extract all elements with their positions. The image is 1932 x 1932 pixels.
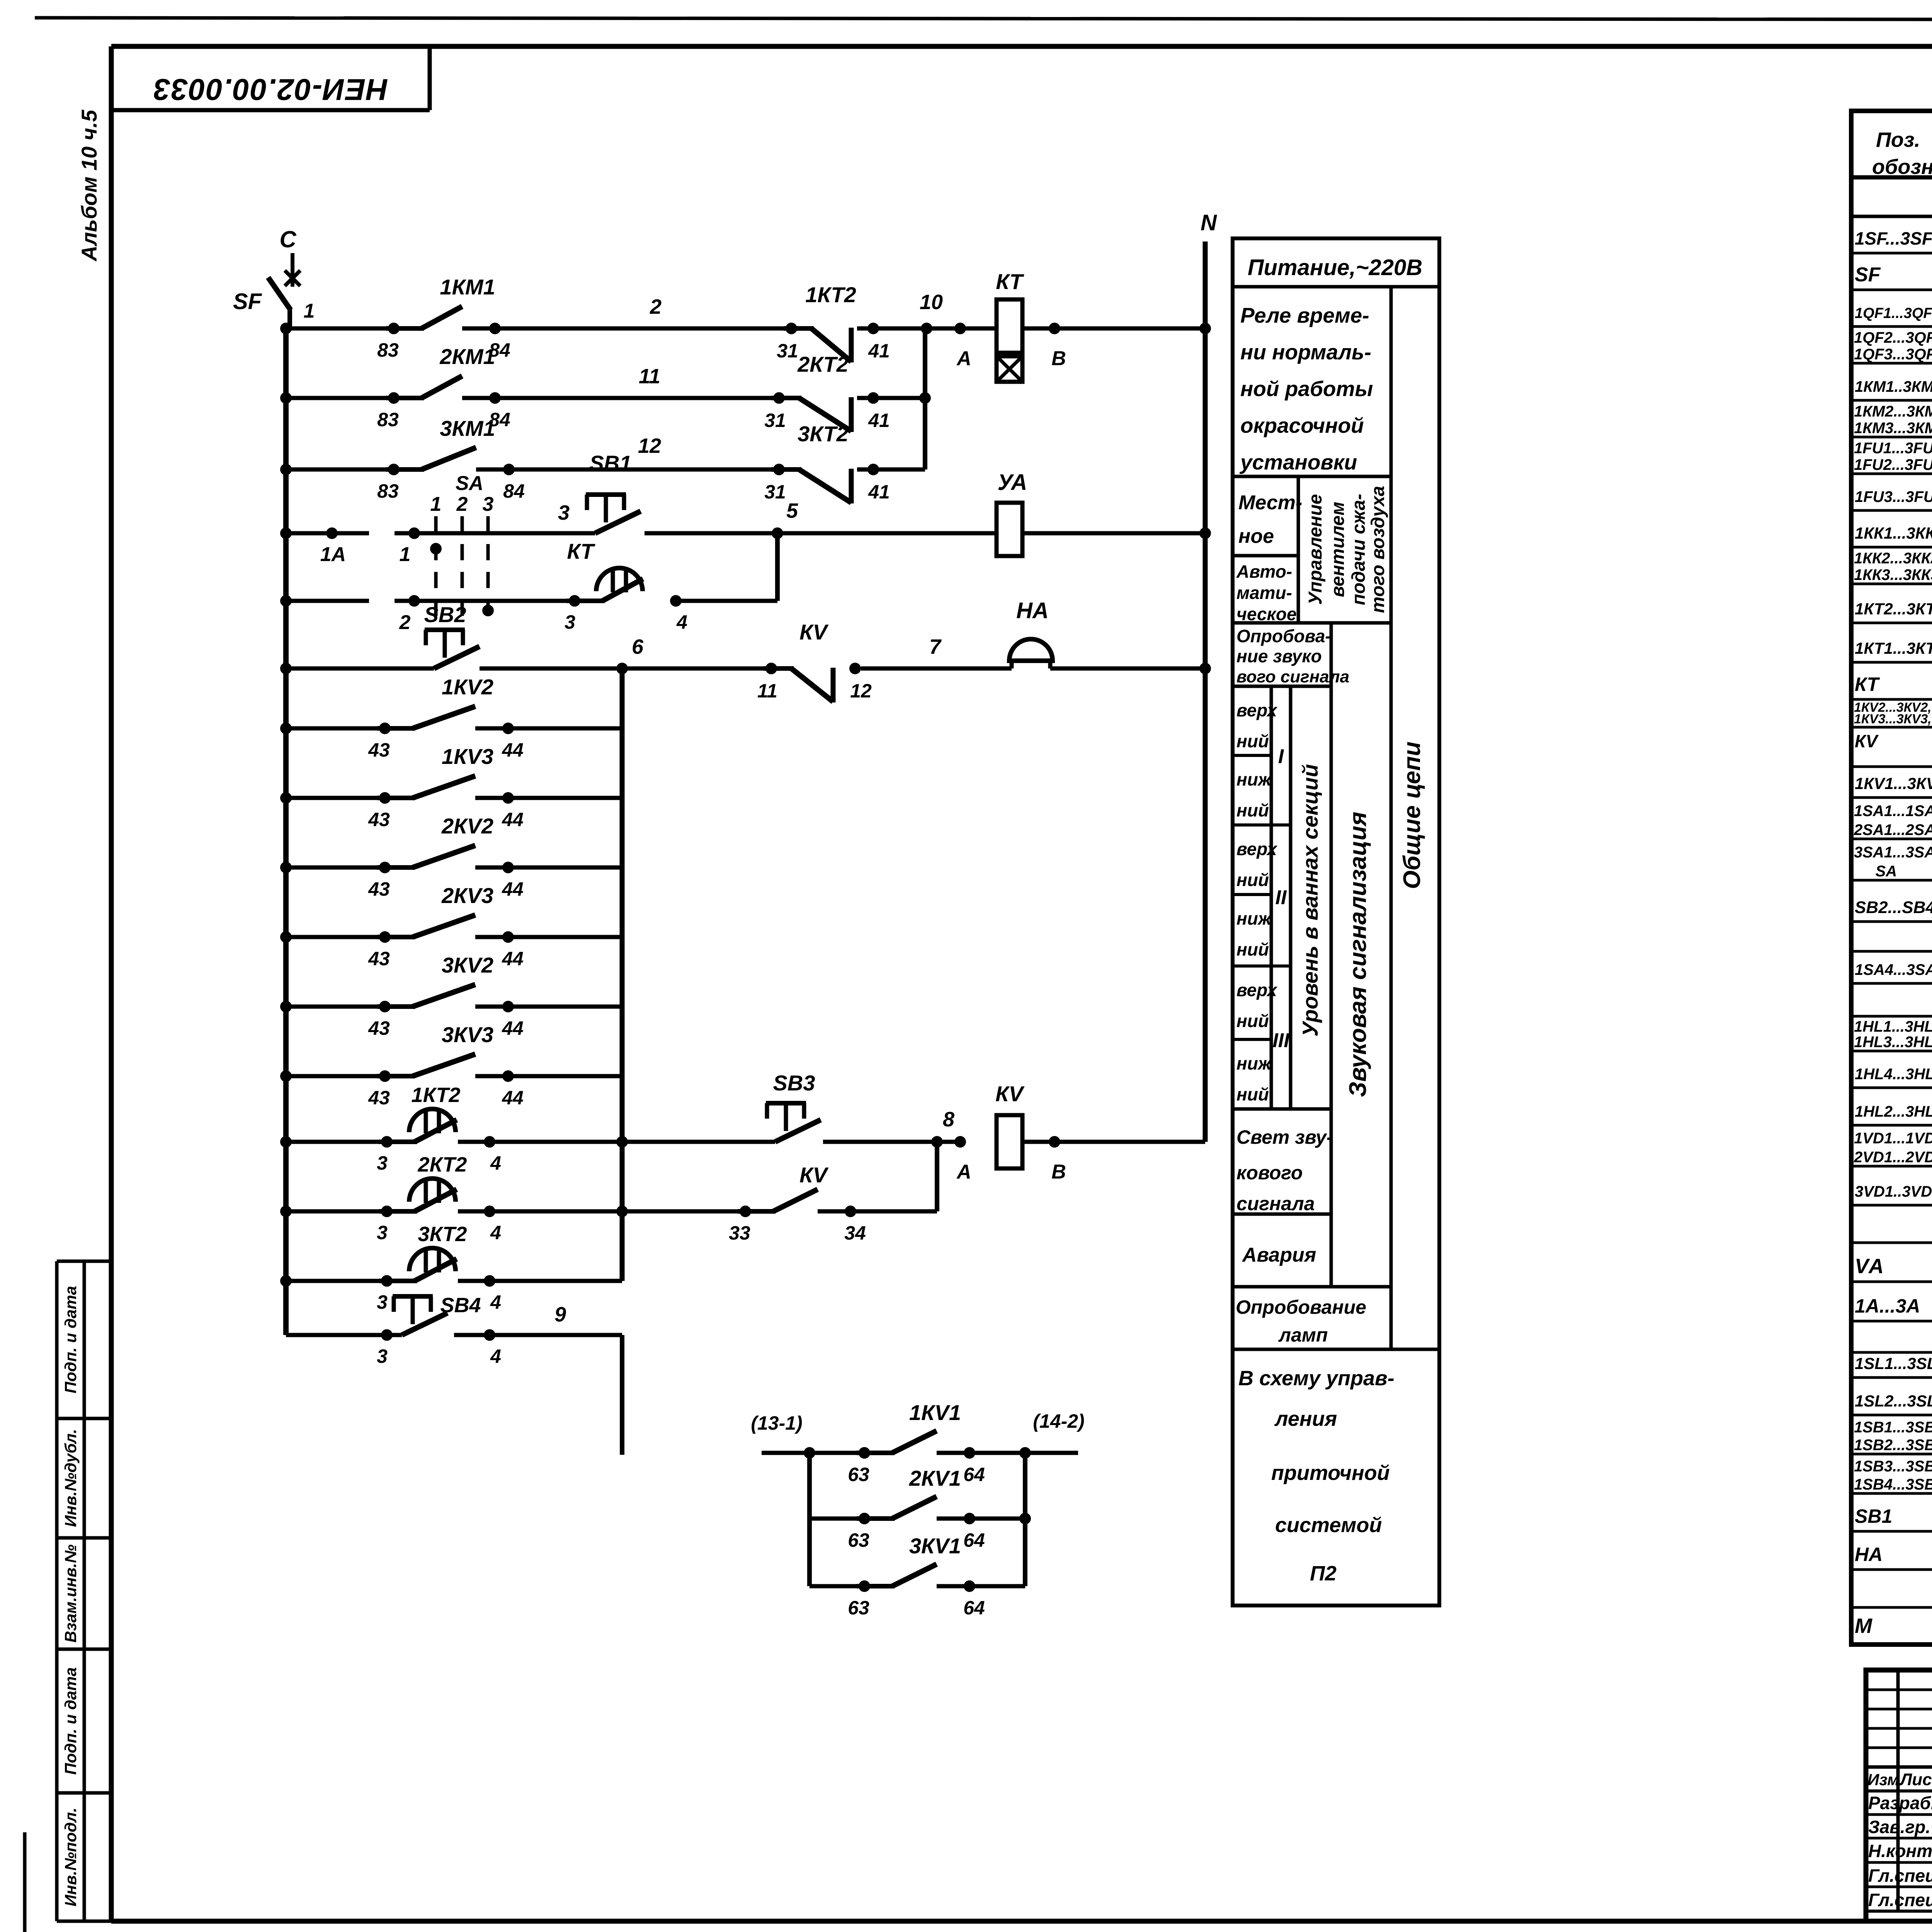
svg-text:Альбом 10 ч.5: Альбом 10 ч.5 [77,109,101,262]
svg-text:Звуковая сигнализация: Звуковая сигнализация [1345,812,1371,1097]
row 1SB3 [1854,1458,1932,1493]
svg-text:2КV1: 2КV1 [909,1466,961,1490]
svg-text:вентилем: вентилем [1328,502,1348,597]
contact 2КV2 (43-44) [280,814,622,900]
svg-text:Опробова-: Опробова- [1236,626,1331,646]
wire rungC to mid bus [458,1279,622,1283]
svg-text:А: А [956,347,971,370]
svg-text:ниж: ниж [1236,1053,1272,1073]
wire rung2 [280,392,394,404]
svg-text:Н.контр.: Н.контр. [1868,1841,1932,1861]
svg-text:ламп: ламп [1278,1324,1328,1346]
svg-text:64: 64 [963,1597,985,1619]
svg-text:3: 3 [377,1345,388,1367]
row 1SA1 [1854,803,1932,838]
svg-text:2VD1...2VD4,: 2VD1...2VD4, [1854,1149,1932,1166]
svg-text:кового: кового [1236,1162,1303,1184]
svg-text:64: 64 [963,1529,985,1551]
svg-text:Гл.спец.: Гл.спец. [1868,1890,1932,1910]
bell HA [1009,598,1053,668]
svg-text:44: 44 [502,948,524,969]
label: Автоматическое [1236,561,1297,624]
time contact 1KT2 (3-4) [280,1083,501,1174]
svg-text:А: А [956,1161,971,1183]
svg-text:2КТ2: 2КТ2 [797,352,849,376]
svg-text:1VD1...1VD4,: 1VD1...1VD4, [1854,1130,1932,1147]
contact KV (11-12) NC [757,620,872,702]
svg-text:8: 8 [943,1108,954,1131]
doc number box (rotated 180) [111,48,430,110]
svg-text:1НL2...3НL2: 1НL2...3НL2 [1855,1103,1932,1120]
svg-text:43: 43 [368,878,390,900]
svg-text:2: 2 [399,611,411,634]
contact KV (33-34) [729,1163,866,1244]
svg-text:3: 3 [377,1152,388,1174]
row 1HL1 [1854,1018,1932,1051]
row diod [1854,1130,1932,1166]
svg-text:Разраб.: Разраб. [1868,1793,1932,1813]
svg-text:41: 41 [868,481,890,503]
svg-text:1QF3...3QF3: 1QF3...3QF3 [1854,346,1932,363]
svg-text:2SА1...2SА3,: 2SА1...2SА3, [1854,821,1932,838]
svg-text:41: 41 [868,340,890,362]
row 1KM2 [1854,403,1932,437]
svg-text:2: 2 [456,493,468,515]
svg-text:4: 4 [490,1291,501,1313]
svg-text:I: I [1278,745,1284,768]
group verticals [810,1453,1025,1586]
svg-text:3: 3 [377,1222,388,1243]
circuit breaker SF [233,277,315,328]
svg-text:КТ: КТ [996,269,1024,294]
svg-text:В: В [1051,1161,1066,1183]
label: Местное [1238,492,1302,548]
svg-text:1КК2...3КК2,: 1КК2...3КК2, [1854,550,1932,567]
svg-text:ниж: ниж [1236,908,1272,929]
row 1HL2 [1855,1097,1932,1122]
svg-text:установки: установки [1239,450,1357,474]
svg-text:1SА4...3SА4: 1SА4...3SА4 [1855,961,1932,978]
contact 3КV3 (43-44) [280,1022,622,1109]
wire rung4 to N [1022,527,1211,539]
row VA [1855,1253,1932,1278]
svg-text:1КV3: 1КV3 [442,744,493,769]
svg-text:КТ: КТ [567,539,595,563]
label: Управление вентилем (vertical) [1305,486,1388,613]
svg-text:11: 11 [639,365,660,388]
contact 2KM1 (83-84) [377,344,510,430]
svg-text:верх: верх [1236,839,1278,859]
push button SB1 [586,451,641,533]
push button SB4 (3-4) [286,1294,501,1367]
svg-text:43: 43 [368,809,390,830]
label SA and 84 on rung3 [456,472,525,502]
svg-text:43: 43 [368,1017,390,1039]
label: Опробование звукового сигнала [1236,626,1349,686]
svg-text:Взам.инв.№: Взам.инв.№ [61,1544,80,1643]
svg-text:1: 1 [430,493,442,515]
svg-text:1FU3...3FU3: 1FU3...3FU3 [1855,488,1932,505]
svg-text:2КV3: 2КV3 [441,883,493,908]
svg-text:43: 43 [368,948,390,969]
solenoid valve coil YA [997,470,1027,556]
svg-text:III: III [1272,1029,1290,1052]
contact 2KT2 (31-41) NC [764,352,890,432]
node A (KT) [954,323,971,370]
component table grid [1851,111,1932,1645]
push button SB3 [766,1071,821,1142]
svg-text:УА: УА [998,470,1027,495]
svg-text:1КТ2: 1КТ2 [412,1083,461,1107]
time contact 2KT2 (3-4) [280,1153,501,1243]
svg-text:5: 5 [786,499,798,522]
svg-text:83: 83 [377,339,399,361]
node A (KV) [954,1136,971,1183]
svg-text:ний: ний [1236,939,1269,959]
svg-text:2: 2 [650,295,662,318]
svg-text:1НL4...3НL4: 1НL4...3НL4 [1855,1066,1932,1083]
svg-text:Лист: Лист [1899,1770,1932,1789]
svg-text:1SВ3...3SВ3,: 1SВ3...3SВ3, [1854,1458,1932,1475]
svg-text:1SВ2...3SВ2,: 1SВ2...3SВ2, [1854,1437,1932,1454]
wire 11 [462,365,779,398]
svg-text:SВ2: SВ2 [424,602,466,627]
svg-text:1FU2...3FU2,: 1FU2...3FU2, [1854,456,1932,473]
row SB2 [1855,893,1932,918]
row M [1855,1605,1932,1643]
svg-text:1НL1...3НL1,: 1НL1...3НL1, [1854,1018,1932,1035]
level cell labels [1236,700,1278,1104]
svg-text:НА: НА [1016,598,1049,623]
svg-text:84: 84 [503,480,525,502]
node 1 [395,527,595,566]
svg-text:Поз.: Поз. [1876,128,1920,151]
svg-text:3: 3 [558,501,570,524]
wire rungB through mid bus [458,1206,745,1217]
row HA [1855,1544,1932,1565]
wire 12 [476,434,779,469]
svg-text:ческое: ческое [1236,604,1297,624]
svg-text:12: 12 [850,680,872,702]
svg-text:63: 63 [848,1597,869,1619]
node 10 [857,291,960,334]
wire rung6 to N [1050,663,1211,674]
svg-text:Зав.гр.: Зав.гр. [1868,1817,1930,1837]
svg-text:1SL1...3SL1,: 1SL1...3SL1, [1855,1354,1932,1372]
svg-text:4: 4 [676,611,687,633]
svg-text:44: 44 [502,1017,524,1039]
svg-text:VА: VА [1855,1255,1884,1278]
svg-text:4: 4 [490,1345,501,1367]
svg-text:64: 64 [963,1464,985,1485]
contact 1KV1 (63-64) [762,1400,1078,1485]
label: Опробование ламп [1236,1296,1366,1346]
svg-text:ние звуко: ние звуко [1236,646,1322,666]
svg-text:КV: КV [1855,731,1879,751]
svg-text:Подп. и дата: Подп. и дата [61,1286,80,1393]
contact 3KM1 (83-84) [377,416,515,502]
push button SB2 [280,602,480,674]
node 6 [480,635,771,674]
svg-text:2КV2: 2КV2 [441,814,493,838]
svg-text:1А: 1А [320,543,346,566]
title block header texts [1867,1769,1932,1789]
wire rung4 (node 1A) [280,527,369,566]
svg-text:1КV1...3КV1: 1КV1...3КV1 [1855,774,1932,793]
wire rungA [458,1136,775,1148]
selector switch SA (positions 1 2 3) [430,493,494,624]
svg-text:31: 31 [764,481,786,503]
svg-text:1SВ4...3SВ4: 1SВ4...3SВ4 [1854,1476,1932,1493]
svg-text:SА: SА [1854,863,1897,880]
signature rows [1868,1792,1932,1910]
svg-text:1КМ2...3КМ2,: 1КМ2...3КМ2, [1854,403,1932,420]
svg-text:43: 43 [368,1087,390,1109]
row 1SL2 [1855,1386,1932,1412]
svg-text:КV: КV [995,1082,1025,1106]
svg-text:3КМ1: 3КМ1 [440,416,495,440]
svg-text:Свет зву-: Свет зву- [1236,1126,1333,1148]
row 1SB1 [1854,1419,1932,1454]
svg-text:верх: верх [1236,980,1278,1000]
wire 2 [462,295,791,328]
svg-text:Подп. и дата: Подп. и дата [61,1667,80,1775]
svg-text:7: 7 [929,635,942,658]
row 3SA1 [1854,844,1932,880]
svg-text:вого сигнала: вого сигнала [1236,667,1349,686]
svg-text:ний: ний [1236,1084,1269,1104]
time contact KT on rung5 [565,539,687,633]
svg-text:1QF2...3QF2: 1QF2...3QF2 [1854,329,1932,346]
svg-text:ления: ления [1274,1407,1337,1430]
wire rung1 from SF bus [280,323,394,334]
row KV [1855,731,1879,751]
svg-text:Питание,~220В: Питание,~220В [1248,255,1422,280]
svg-text:Авария: Авария [1242,1244,1316,1266]
row SF [1855,261,1932,286]
node 5 [645,499,997,539]
svg-text:П2: П2 [1310,1562,1337,1585]
svg-text:ни нормаль-: ни нормаль- [1240,340,1371,364]
svg-text:11: 11 [757,680,777,702]
svg-text:SВ3: SВ3 [773,1071,815,1095]
svg-text:43: 43 [368,739,390,761]
svg-text:SВ1: SВ1 [1855,1505,1892,1527]
svg-text:ной работы: ной работы [1240,377,1373,401]
svg-text:1КТ2: 1КТ2 [805,282,856,307]
contact 2КV3 (43-44) [280,883,622,969]
svg-text:SВ1: SВ1 [590,451,632,475]
row KT [1855,671,1932,696]
svg-text:Авто-: Авто- [1236,561,1292,582]
svg-text:83: 83 [377,409,399,430]
mid vertical bus [620,668,625,1281]
svg-text:12: 12 [638,434,661,457]
svg-text:1КМ3...3КМ3: 1КМ3...3КМ3 [1854,420,1932,437]
svg-text:3КV3: 3КV3 [442,1022,493,1047]
svg-text:3КТ2: 3КТ2 [798,422,849,446]
function column frame [1233,238,1439,1605]
svg-text:того воздуха: того воздуха [1368,486,1388,613]
svg-text:ний: ний [1236,870,1269,890]
svg-text:мати-: мати- [1236,583,1292,603]
contact 1KT2 (31-41) NC [777,282,890,362]
svg-text:КТ: КТ [1855,673,1880,695]
contact 1KM1 (83-84) [377,275,510,361]
svg-text:33: 33 [729,1222,750,1244]
label: Свет звукового сигнала [1236,1126,1333,1214]
svg-text:1КV1: 1КV1 [909,1400,961,1425]
row 1SL1 [1855,1351,1932,1374]
svg-text:1КМ1: 1КМ1 [440,275,495,299]
svg-text:Изм: Изм [1867,1770,1899,1789]
relay coil KV [995,1082,1025,1168]
svg-text:9: 9 [554,1303,566,1326]
row 1FU1 [1854,440,1932,473]
svg-text:1SL2...3SL2: 1SL2...3SL2 [1855,1392,1932,1410]
svg-text:М: М [1855,1614,1872,1638]
row 1HL4 [1855,1066,1932,1083]
svg-text:34: 34 [844,1222,866,1244]
svg-text:обозн.: обозн. [1872,155,1932,179]
time contact 3KT2 (3-4) [280,1223,501,1313]
row 1KV1 [1855,769,1932,794]
svg-text:SF: SF [1855,264,1881,286]
wire rung3 to V1 [857,468,925,472]
label: В схему управления П2 [1238,1367,1395,1585]
svg-text:3: 3 [483,493,494,515]
contact 3KV1 (63-64) [810,1534,1025,1619]
svg-text:1: 1 [400,543,411,566]
svg-text:(14-2): (14-2) [1033,1410,1084,1432]
node C (phase) [279,226,300,287]
row SB1 [1855,1503,1932,1528]
row 1FU3 [1855,482,1932,507]
node B (KT) [1022,323,1211,370]
row 1QF2 [1854,329,1932,363]
svg-text:(13-1): (13-1) [751,1412,802,1434]
row 1SA4 [1855,955,1932,980]
svg-text:3: 3 [377,1291,388,1313]
row 1KT2 [1855,594,1932,619]
row 3VD [1855,1177,1932,1202]
row 1A..3A [1855,1295,1932,1317]
svg-text:системой: системой [1275,1514,1382,1537]
svg-text:ное: ное [1238,525,1274,548]
svg-text:Инв.№дубл.: Инв.№дубл. [61,1429,80,1527]
wire rung3 [280,464,394,475]
svg-text:Гл.спец.: Гл.спец. [1868,1866,1932,1886]
svg-text:3КТ2: 3КТ2 [418,1223,467,1246]
svg-text:44: 44 [502,1087,524,1109]
svg-text:SА: SА [456,472,483,495]
svg-text:ний: ний [1236,1011,1269,1031]
svg-text:2КМ1: 2КМ1 [439,344,495,369]
row 1KK1 [1855,519,1932,543]
svg-text:3SА1...3SА3,: 3SА1...3SА3, [1854,844,1932,861]
svg-text:44: 44 [502,739,524,761]
svg-text:II: II [1276,886,1287,909]
svg-text:1КМ1..3КМ1,: 1КМ1..3КМ1, [1855,378,1932,395]
svg-text:1КТ1...3КТ1: 1КТ1...3КТ1 [1855,639,1932,657]
section numerals I II III [1272,745,1290,1052]
svg-text:3: 3 [565,611,575,633]
svg-text:В схему управ-: В схему управ- [1238,1367,1395,1390]
svg-text:SF: SF [233,289,262,314]
contact 2KV1 (63-64) [810,1466,1031,1551]
svg-text:1А...3А: 1А...3А [1855,1295,1920,1317]
node 8 [823,1108,960,1148]
svg-text:1КК3...3КК3: 1КК3...3КК3 [1854,566,1932,583]
row 1KV2 [1854,699,1932,726]
node B (KV) wire to N [1022,1136,1205,1183]
contact 3КV2 (43-44) [280,953,622,1039]
wire rungB up to node 8 [818,1142,937,1211]
svg-text:1НL3...3НL3,: 1НL3...3НL3, [1854,1034,1932,1051]
svg-text:ний: ний [1236,800,1269,820]
svg-text:КV: КV [799,620,829,644]
row 1KT1 [1855,634,1932,659]
svg-text:63: 63 [848,1464,869,1485]
svg-text:Реле време-: Реле време- [1240,303,1369,327]
label: Реле времени [1239,303,1373,474]
row 1KM1 [1855,376,1932,396]
row 1QF1 [1855,302,1932,322]
svg-text:N: N [1201,210,1217,235]
wire rung5 to node5 vertical [676,533,777,601]
svg-text:4: 4 [490,1222,501,1243]
svg-text:1FU1...3FU1,: 1FU1...3FU1, [1854,440,1932,457]
contact 1КV2 (43-44) [280,675,622,761]
svg-text:SВ2...SВ4: SВ2...SВ4 [1855,898,1932,917]
row 1SF [1855,227,1932,249]
svg-text:верх: верх [1236,700,1278,720]
wire rung5 stub [280,595,369,607]
svg-text:окрасочной: окрасочной [1240,413,1364,437]
svg-text:1КV3...3КV3,: 1КV3...3КV3, [1854,712,1932,726]
wire 9 [454,1303,622,1455]
svg-text:1SF...3SF;: 1SF...3SF; [1855,228,1932,248]
svg-text:6: 6 [632,635,644,658]
wire to vertical V1 [857,392,931,404]
title block frame [1866,1670,1932,1921]
svg-text:Инв.№подл.: Инв.№подл. [61,1808,80,1906]
bus N (right vertical) [1201,210,1217,1142]
svg-text:ниж: ниж [1236,769,1272,789]
svg-text:44: 44 [502,809,524,830]
svg-text:Общие цепи: Общие цепи [1399,742,1425,889]
svg-text:41: 41 [868,410,890,431]
svg-text:44: 44 [502,878,524,900]
svg-text:1КV2: 1КV2 [442,675,493,699]
svg-text:4: 4 [490,1152,501,1174]
svg-text:3КV1: 3КV1 [909,1534,961,1558]
relay coil KT with thermal box [960,269,1024,382]
table header [1872,128,1932,179]
svg-text:1SА1...1SА3,: 1SА1...1SА3, [1854,803,1932,820]
svg-text:1КТ2...3КТ2: 1КТ2...3КТ2 [1855,600,1932,618]
svg-text:ний: ний [1236,731,1269,751]
svg-text:31: 31 [764,410,786,431]
svg-text:2КТ2: 2КТ2 [418,1153,467,1176]
contact 3KT2 (31-41) NC [764,422,890,503]
svg-text:подачи сжа-: подачи сжа- [1349,494,1369,605]
svg-text:1SВ1...3SВ1,: 1SВ1...3SВ1, [1854,1419,1932,1436]
svg-text:1: 1 [304,300,315,322]
svg-text:83: 83 [377,480,399,502]
vertical V1 joining KT2 contacts to node 10 [923,328,927,469]
node 2 [395,595,575,634]
